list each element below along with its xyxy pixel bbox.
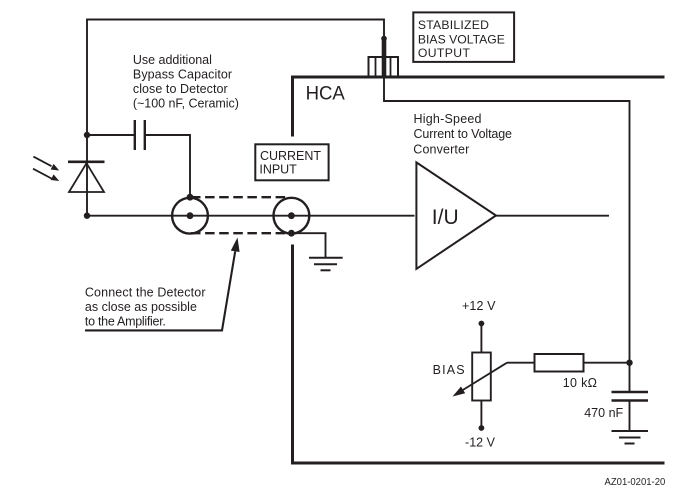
svg-text:10 kΩ: 10 kΩ xyxy=(563,376,597,390)
svg-text:Converter: Converter xyxy=(413,142,469,156)
svg-text:to the Amplifier.: to the Amplifier. xyxy=(85,315,166,329)
svg-text:Bypass Capacitor: Bypass Capacitor xyxy=(133,68,232,82)
svg-text:STABILIZED: STABILIZED xyxy=(418,18,489,32)
svg-text:CURRENT: CURRENT xyxy=(260,149,321,163)
svg-text:close to Detector: close to Detector xyxy=(133,82,228,96)
svg-text:BIAS VOLTAGE: BIAS VOLTAGE xyxy=(418,33,505,47)
svg-text:OUTPUT: OUTPUT xyxy=(418,46,471,60)
svg-text:470 nF: 470 nF xyxy=(584,406,623,420)
svg-text:BIAS: BIAS xyxy=(433,363,465,377)
svg-text:+12 V: +12 V xyxy=(462,299,496,313)
svg-text:(~100 nF, Ceramic): (~100 nF, Ceramic) xyxy=(133,97,239,111)
svg-text:Connect the Detector: Connect the Detector xyxy=(85,286,206,300)
svg-text:Use additional: Use additional xyxy=(133,53,212,67)
svg-text:AZ01-0201-20: AZ01-0201-20 xyxy=(605,477,666,488)
svg-text:HCA: HCA xyxy=(306,82,345,104)
svg-text:as close as possible: as close as possible xyxy=(85,300,197,314)
svg-text:INPUT: INPUT xyxy=(259,163,297,177)
svg-text:High-Speed: High-Speed xyxy=(414,112,482,126)
svg-text:Current to Voltage: Current to Voltage xyxy=(414,127,513,141)
svg-text:-12 V: -12 V xyxy=(465,436,496,450)
svg-text:I/U: I/U xyxy=(432,206,459,229)
